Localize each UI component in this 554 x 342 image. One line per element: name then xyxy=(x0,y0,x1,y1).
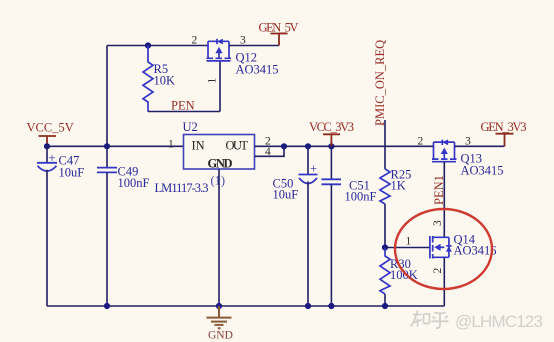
svg-text:OUT: OUT xyxy=(226,139,249,153)
wire Q13 pin3 to GEN_3V3 xyxy=(455,145,505,147)
wire vertical from top rail down to VCC_5V rail xyxy=(106,46,108,147)
wire U2 GND pin down xyxy=(218,169,220,306)
wire ground rail xyxy=(47,305,444,307)
capacitor C51 xyxy=(330,146,332,179)
node junction GND xyxy=(216,303,222,309)
Q14 substrate arrow xyxy=(434,244,440,251)
node junction C50 xyxy=(305,143,311,149)
svg-text:2: 2 xyxy=(192,35,198,47)
power port GEN_5V xyxy=(271,34,288,46)
wire U2 pin2 xyxy=(255,145,285,147)
svg-text:U2: U2 xyxy=(183,120,198,134)
power port VCC_3V3 xyxy=(323,134,340,146)
transistor Q14 AO3416 NMOS (rotated) xyxy=(430,236,449,259)
svg-text:LM1117-3.3: LM1117-3.3 xyxy=(155,181,209,195)
svg-text:GND: GND xyxy=(208,330,233,342)
wire R25 to node xyxy=(384,204,386,248)
transistor Q12 AO3415 PMOS xyxy=(207,41,232,61)
node junction C49 bottom xyxy=(104,303,110,309)
ground GND symbol xyxy=(207,306,232,328)
transistor Q13 AO3415 PMOS xyxy=(432,142,457,162)
wire Q14 gate horizontal xyxy=(385,247,430,249)
node junction VCC_5V xyxy=(44,143,50,149)
svg-text:1: 1 xyxy=(168,139,174,151)
Q12 substrate arrow xyxy=(215,47,222,53)
node junction gate divider xyxy=(382,244,388,250)
power port VCC_5V xyxy=(39,136,57,146)
wire Q12 pin3 to GEN_5V xyxy=(229,45,279,47)
svg-text:GEN_5V: GEN_5V xyxy=(259,21,299,35)
resistor R5 xyxy=(143,46,153,112)
wire U2 pin4 xyxy=(255,146,285,156)
svg-text:1K: 1K xyxy=(391,179,406,193)
Q14 body diode xyxy=(446,245,451,247)
svg-text:+: + xyxy=(49,151,56,165)
node junction C51/VCC_3V3 xyxy=(328,143,334,149)
svg-text:1: 1 xyxy=(207,78,219,84)
capacitor C49 xyxy=(106,146,108,167)
svg-text:10uF: 10uF xyxy=(59,166,85,180)
svg-text:@LHMC123: @LHMC123 xyxy=(455,312,543,331)
node junction pin2/pin4 xyxy=(281,143,287,149)
Q13 body diode xyxy=(441,140,443,145)
watermark 知乎 @LHMC123 xyxy=(411,311,449,329)
svg-text:10uF: 10uF xyxy=(273,188,299,202)
svg-text:AO3415: AO3415 xyxy=(236,63,279,77)
capacitor C47 xyxy=(46,146,48,162)
power port GEN_3V3 xyxy=(496,134,514,147)
wire VCC_3V3 rail xyxy=(284,145,434,147)
regulator U2 LM1117-3.3 xyxy=(184,135,255,170)
resistor R25 xyxy=(380,169,390,204)
wire VCC_5V rail xyxy=(47,145,184,147)
svg-text:GND: GND xyxy=(208,157,233,171)
svg-text:10K: 10K xyxy=(154,74,176,88)
wire PEN1 net Q13 gate down to Q14 drain xyxy=(443,162,445,238)
svg-text:1: 1 xyxy=(406,236,412,248)
svg-text:+: + xyxy=(310,162,317,176)
wire Q14 source to ground rail xyxy=(443,257,445,306)
svg-text:IN: IN xyxy=(192,139,205,153)
svg-text:3: 3 xyxy=(432,220,444,226)
Q12 body diode xyxy=(216,39,218,44)
resistor R30 xyxy=(380,248,390,295)
node junction C51 bottom xyxy=(328,303,334,309)
node junction C49 top xyxy=(104,143,110,149)
svg-text:VCC_3V3: VCC_3V3 xyxy=(309,120,354,134)
svg-text:100nF: 100nF xyxy=(345,190,377,204)
svg-text:100nF: 100nF xyxy=(118,176,150,190)
node junction R30 bottom xyxy=(382,303,388,309)
svg-text:PMIC_ON_REQ: PMIC_ON_REQ xyxy=(373,40,387,126)
wire R30 to ground rail xyxy=(384,294,386,306)
wire PEN net horizontal xyxy=(148,111,220,113)
highlight ellipse around Q14 xyxy=(395,209,492,289)
wire PMIC_ON_REQ vertical xyxy=(384,120,386,169)
svg-text:2: 2 xyxy=(418,136,424,148)
node junction R5 top xyxy=(145,42,151,48)
svg-text:PEN1: PEN1 xyxy=(432,175,446,205)
svg-text:(1): (1) xyxy=(211,174,226,188)
wire Q12 gate vertical xyxy=(219,61,221,112)
svg-text:AO3415: AO3415 xyxy=(461,164,504,178)
svg-text:PEN: PEN xyxy=(171,99,195,113)
capacitor C50 xyxy=(307,146,309,174)
node junction C50 bottom xyxy=(305,303,311,309)
svg-text:2: 2 xyxy=(432,268,444,274)
Q13 substrate arrow xyxy=(441,148,448,154)
svg-text:GEN_3V3: GEN_3V3 xyxy=(481,120,527,134)
svg-text:AO3416: AO3416 xyxy=(454,244,497,258)
svg-text:VCC_5V: VCC_5V xyxy=(27,121,74,135)
wire top rail 5V to Q12 pin2 xyxy=(107,45,208,47)
